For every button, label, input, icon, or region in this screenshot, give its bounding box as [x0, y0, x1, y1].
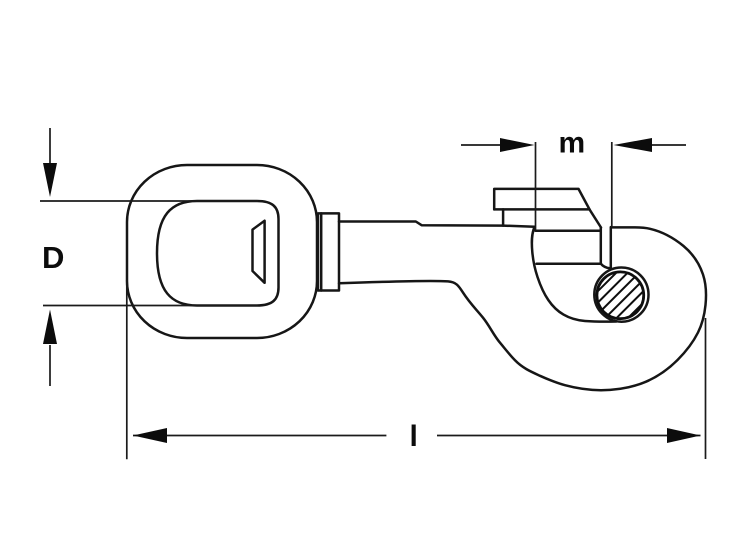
D top extension line [40, 200, 258, 202]
collar rim line [320, 213, 323, 290]
snap gate bottom edge [537, 262, 601, 265]
m dimension left shaft [461, 144, 502, 146]
swivel eye outer ring [127, 165, 317, 338]
l dimension line right segment [437, 435, 701, 437]
l right arrowhead [667, 428, 701, 443]
l right extension line [705, 318, 707, 459]
thumb latch step [502, 209, 505, 225]
D upper arrowhead [43, 163, 57, 197]
D lower arrow shaft [49, 345, 51, 386]
thumb latch bottom edge [494, 208, 589, 211]
m dimension right shaft [650, 144, 686, 146]
hatched wire cross-section [574, 262, 672, 360]
hook nose inner edge [610, 227, 613, 268]
swivel bolt stud (chamfered head seen through opening) [253, 221, 265, 283]
D lower arrowhead [43, 310, 57, 345]
collar / barrel [318, 213, 339, 290]
m right extension line [611, 142, 613, 227]
l left arrowhead [133, 428, 167, 443]
m left extension line [535, 142, 537, 230]
l left extension line [126, 280, 128, 459]
svg-text:m: m [559, 126, 586, 159]
snap gate right edge [600, 228, 603, 264]
D upper arrow shaft [49, 128, 51, 165]
hook throat / gate-left curve [532, 227, 617, 322]
snap gate top edge [536, 230, 601, 233]
svg-text:D: D [42, 240, 64, 275]
svg-text:l: l [410, 420, 418, 453]
thumb latch top piece [494, 189, 601, 228]
eye hole of hook head [594, 268, 648, 322]
swivel eye inner opening [157, 201, 279, 306]
shank bottom edge and hook bowl outer boundary [339, 227, 706, 390]
gate corner to eye junction [601, 264, 610, 269]
m left arrowhead [500, 138, 535, 152]
l dimension line left segment [133, 435, 386, 437]
shank top edge [339, 222, 535, 227]
m right arrowhead [614, 138, 653, 152]
D bottom extension line [43, 305, 258, 307]
